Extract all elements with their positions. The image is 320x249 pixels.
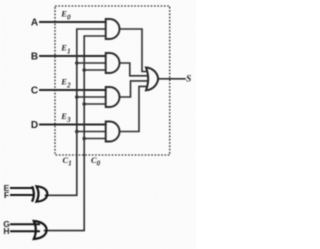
node C0/E2 junction (82, 102, 86, 106)
node C1/E2 junction (75, 95, 79, 99)
wire gate E2 output to OR (120, 81, 147, 97)
node C0/E3 junction (82, 137, 86, 141)
wire gate E0 output to OR (120, 29, 147, 72)
wire stub C1 to gate E1 (77, 62, 106, 64)
wire select column C0 (45, 36, 106, 231)
wire stub C0 to gate E1 (84, 69, 106, 71)
and-gate E2 (106, 87, 120, 107)
wire gate E1 output to OR (120, 63, 147, 76)
dashed enclosure box (55, 6, 170, 155)
wire input C (40, 89, 106, 91)
and-gate E0 (106, 19, 120, 39)
wire output S (158, 78, 185, 80)
xor-gate C1 (32, 186, 34, 201)
and-gate E1 (106, 53, 120, 73)
wire select column C1 (46, 29, 106, 195)
bottom section wires (11, 188, 39, 231)
or-gate C0 (34, 221, 47, 239)
wire stub C0 to gate E3 (84, 138, 106, 140)
wire input A (40, 21, 106, 23)
node C1/E1 junction (75, 61, 79, 65)
or-gate output S (146, 68, 158, 91)
wire stub C1 to gate E3 (77, 131, 106, 133)
junction dots (75, 61, 86, 140)
wire input H (11, 230, 39, 232)
wire input D (40, 124, 106, 126)
paper grain (0, 0, 1, 1)
wire stub C1 to gate E2 (77, 96, 106, 98)
wire input G (11, 223, 39, 225)
wire input E (11, 187, 33, 189)
wire stub C0 to gate E2 (84, 103, 106, 105)
wire input B (40, 55, 106, 57)
wire gate E3 output to OR (120, 86, 147, 131)
node C0/E1 junction (82, 68, 86, 72)
wire input F (11, 194, 33, 196)
node C1/E3 junction (75, 130, 79, 134)
and-gate E3 (106, 122, 120, 142)
